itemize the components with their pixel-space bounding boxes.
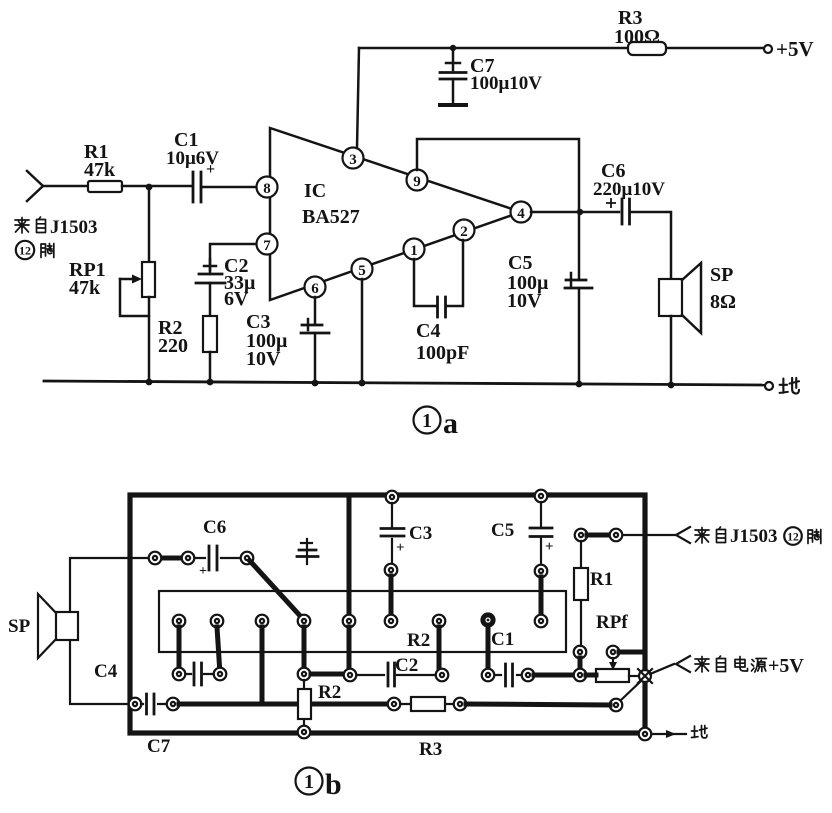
label 来自电源+5V [695, 655, 804, 677]
label C2 pcb [395, 655, 418, 676]
label C4 pcb [94, 661, 118, 682]
output wire pin4 to C6 [531, 211, 619, 214]
pad R1 bottom [574, 646, 587, 659]
trace IC pad5 down [347, 627, 352, 675]
resistor R3 [628, 42, 666, 55]
node junction dot at R1/C1/RP1 [146, 184, 153, 191]
label C7 100u10V [470, 55, 542, 94]
wire C2 to R2 [209, 283, 212, 316]
pin 2 [454, 220, 475, 241]
svg-text:+: + [396, 540, 405, 556]
IC pad 5 [343, 615, 356, 628]
pad C6 left [149, 552, 162, 565]
svg-text:J1503: J1503 [50, 217, 98, 238]
svg-text:+5V: +5V [768, 655, 804, 677]
pad C6 right [241, 552, 254, 565]
svg-text:a: a [443, 407, 458, 440]
svg-text:C3: C3 [409, 523, 432, 544]
speaker SP [659, 263, 701, 333]
pad row2 e [436, 669, 449, 682]
IC outline rectangle [159, 591, 566, 652]
svg-text:1: 1 [422, 410, 432, 432]
IC pad 9 [535, 615, 548, 628]
label C5 100u 10V [507, 252, 549, 312]
ground terminal + di glyph [765, 378, 799, 394]
label di ground pcb [692, 726, 708, 739]
svg-text:+5V: +5V [776, 37, 814, 61]
label IC BA527 [302, 180, 360, 228]
svg-text:8: 8 [263, 181, 271, 197]
pad R2 bottom on edge [298, 726, 311, 739]
resistor R1 [88, 181, 122, 192]
ground rail [44, 381, 766, 385]
svg-text:SP: SP [710, 264, 733, 286]
trace R1 bottom pad down [578, 658, 583, 675]
resistor R3 pcb [400, 697, 454, 711]
label C3 100u 10V [246, 311, 288, 370]
ground junction dots [146, 379, 675, 389]
wire pin5 to ground [361, 279, 364, 383]
wire R2 to ground [209, 352, 212, 382]
pad wiper top [607, 646, 620, 659]
svg-text:J1503: J1503 [730, 526, 778, 547]
svg-text:100pF: 100pF [416, 342, 469, 364]
trace input pads thick [587, 533, 611, 538]
IC pad 4 [298, 615, 311, 628]
pin 4 [511, 202, 532, 223]
svg-text:6: 6 [311, 281, 319, 297]
label C3 pcb [409, 523, 432, 544]
capacitor C6 pcb [196, 546, 240, 579]
label R1 47k [84, 141, 116, 181]
IC pad 1 [173, 615, 186, 628]
pad C7 left [129, 698, 142, 711]
svg-text:IC: IC [304, 180, 326, 202]
svg-text:6V: 6V [224, 288, 249, 310]
pin 3 [343, 148, 364, 169]
trace row2 g to R1 pad thick [534, 673, 580, 678]
trace IC pad3 down long [260, 627, 265, 703]
capacitor C3 pcb [381, 503, 405, 564]
input terminal fork [27, 171, 43, 201]
pad row2 a [173, 668, 186, 681]
pad row2 c [298, 668, 311, 681]
label circled 12 + jiao glyph [16, 241, 54, 259]
pad C6 mid [182, 552, 195, 565]
trace IC pad7 down [437, 627, 442, 675]
svg-text:R3: R3 [419, 739, 442, 760]
capacitor C2 electrolytic [196, 259, 225, 283]
trace IC pad2 down [217, 627, 220, 674]
label SP 8ohm [710, 264, 736, 313]
pad C7 right [167, 698, 180, 711]
feedback wire pin9 to output node [417, 139, 579, 210]
wire pin3 up to +5V rail [357, 48, 359, 148]
svg-text:BA527: BA527 [302, 206, 360, 228]
svg-text:1: 1 [410, 243, 418, 259]
svg-text:C5: C5 [491, 520, 514, 541]
IC pad 2 [211, 615, 224, 628]
PCB board outline [130, 495, 645, 733]
label 来自J1503 pin12 input [15, 217, 98, 238]
label 1a figure caption [414, 407, 459, 441]
label C4 100pF [416, 320, 469, 364]
wire C6 to speaker [630, 212, 671, 279]
svg-text:+: + [199, 564, 207, 579]
trace C6 left thick [155, 556, 188, 561]
svg-text:12: 12 [19, 244, 31, 258]
pin 8 [257, 177, 278, 198]
svg-text:5: 5 [358, 263, 366, 279]
IC pad 7 [433, 615, 446, 628]
IC pad 3 [256, 615, 269, 628]
pad row2 g [522, 669, 535, 682]
+5V rail [359, 47, 766, 50]
svg-text:R2: R2 [407, 630, 430, 651]
label C1 pcb [491, 629, 514, 650]
wire node to RP1 [148, 187, 151, 262]
wire pin7 to C2 [210, 244, 257, 270]
label C6 220u10V [593, 160, 665, 200]
pin 7 [257, 234, 278, 255]
resistor R2 [203, 316, 217, 352]
pad row2 f [482, 669, 495, 682]
X junction node [638, 669, 652, 683]
label RPf pcb [596, 612, 628, 633]
trace R3 to +5V pad thick [466, 704, 610, 705]
trace IC pad1 down [177, 627, 182, 674]
trace diagonal C6 to IC pad [250, 561, 303, 619]
trace bottom horizontal thick [179, 702, 390, 707]
trace C5 pad to IC pad 9 [539, 577, 544, 620]
svg-text:100Ω: 100Ω [614, 26, 660, 48]
pad C5 bottom [535, 565, 548, 578]
svg-text:RPf: RPf [596, 612, 628, 633]
pad C3 bottom [385, 564, 398, 577]
connector arrow J1503 [676, 527, 690, 543]
svg-text:47k: 47k [69, 277, 101, 299]
pin 6 [305, 277, 326, 298]
capacitor C4 pcb plates [186, 663, 213, 685]
capacitor C4 between pin1 and pin2 [414, 240, 463, 317]
label C5 pcb [491, 520, 514, 541]
trace C3 pad to IC pad 6 [389, 576, 394, 619]
speaker SP pcb [38, 594, 78, 658]
label 1b figure caption [296, 768, 342, 802]
pad junction r1 row2 [574, 669, 587, 682]
svg-text:2: 2 [460, 224, 468, 240]
label R1 pcb [590, 569, 613, 590]
capacitor C1 pcb plates [495, 664, 521, 686]
floating electrolytic cap symbol [297, 539, 318, 564]
svg-text:7: 7 [263, 238, 271, 254]
capacitor C7 pcb [141, 694, 166, 714]
wire R1 to C1 [122, 185, 191, 188]
svg-text:220μ10V: 220μ10V [593, 179, 665, 200]
node dot output/C5 [577, 209, 583, 215]
pin 5 [352, 259, 373, 280]
wire input to R1 [43, 185, 88, 188]
label 来自J1503 pin12 pcb [695, 526, 821, 547]
svg-text:R1: R1 [590, 569, 613, 590]
svg-text:C4: C4 [94, 661, 118, 682]
resistor R2 pcb vertical [298, 680, 311, 727]
svg-text:12: 12 [787, 532, 799, 544]
pad input right [610, 529, 623, 542]
label R2 lower pcb [318, 682, 341, 703]
svg-text:C5: C5 [508, 252, 532, 274]
capacitor C1 [193, 172, 201, 202]
svg-text:C6: C6 [203, 517, 226, 538]
pad R3 right [454, 698, 467, 711]
label R2 upper pcb [407, 630, 430, 651]
wire speaker loop left [70, 558, 148, 704]
trace row2 c to d thick [311, 672, 344, 677]
label R3 pcb [419, 739, 442, 760]
pad row2 b [214, 668, 227, 681]
pin 1 [404, 239, 425, 260]
svg-text:+: + [206, 161, 215, 178]
svg-text:10V: 10V [507, 290, 542, 312]
op-amp IC BA527 triangle [270, 128, 521, 300]
svg-text:C4: C4 [416, 320, 440, 342]
svg-text:R2: R2 [318, 682, 341, 703]
potentiometer RP1 [120, 262, 155, 316]
label C1 10u6V [166, 129, 219, 178]
svg-text:8Ω: 8Ω [710, 291, 736, 313]
wire input lead to connector [623, 534, 676, 536]
label RP1 47k [69, 259, 106, 299]
label R3 100ohm [614, 7, 660, 48]
ground lead + arrow [652, 730, 686, 738]
svg-text:3: 3 [349, 152, 357, 168]
svg-text:4: 4 [517, 206, 525, 222]
wire pad to X junction diagonal [621, 681, 641, 700]
resistor R1 pcb [574, 541, 588, 646]
+5V terminal [764, 37, 814, 61]
capacitor C5 pcb [530, 502, 554, 565]
trace IC pad4 down [302, 627, 307, 674]
label R2 220 [158, 317, 188, 357]
label SP pcb [8, 616, 31, 637]
svg-text:9: 9 [413, 174, 421, 190]
pad input left [575, 529, 588, 542]
potentiometer RP body pcb [596, 669, 629, 682]
wire X junction to +5V connector [650, 664, 674, 674]
capacitor C5 electrolytic [565, 210, 592, 384]
pad ground corner [639, 728, 652, 741]
label C2 33u 6V [224, 255, 256, 310]
trace RP left to junction pad [586, 673, 596, 678]
label C7 pcb [147, 736, 171, 757]
pad top edge C3 [386, 491, 399, 504]
node dot rail/C7 [450, 45, 456, 51]
svg-text:10V: 10V [246, 348, 281, 370]
svg-text:47k: 47k [84, 159, 116, 181]
capacitor C3 electrolytic from pin6 [301, 297, 329, 383]
capacitor C7 electrolytic [438, 48, 468, 105]
svg-text:C7: C7 [147, 736, 171, 757]
wire C1 to pin 8 [201, 186, 258, 189]
svg-text:+: + [545, 539, 554, 555]
trace wiper pad to right edge [619, 650, 645, 655]
trace vertical top edge to IC pad 5 [347, 495, 352, 621]
trace IC pad8 down [486, 628, 491, 675]
pad top edge C5 [535, 490, 548, 503]
svg-text:100μ10V: 100μ10V [470, 73, 542, 94]
svg-text:b: b [325, 768, 342, 801]
svg-text:C1: C1 [491, 629, 514, 650]
pin 9 [407, 170, 428, 191]
pad R3 left [388, 698, 401, 711]
svg-text:1: 1 [304, 771, 314, 793]
connector arrow +5V [676, 656, 690, 672]
svg-text:SP: SP [8, 616, 31, 637]
capacitor C2 pcb [357, 663, 435, 686]
label C6 pcb [203, 517, 226, 538]
wire RP1 to ground [148, 297, 151, 382]
svg-text:C2: C2 [395, 655, 418, 676]
capacitor C6 [606, 198, 630, 224]
wire speaker to ground [670, 316, 673, 385]
pad below X [610, 699, 623, 712]
IC pad 8 filled [480, 612, 495, 627]
IC pad 6 [385, 615, 398, 628]
svg-text:220: 220 [158, 335, 188, 357]
wire RP right to X junction [629, 675, 640, 677]
wiper arrow down [609, 658, 617, 670]
pad row2 d [344, 669, 357, 682]
